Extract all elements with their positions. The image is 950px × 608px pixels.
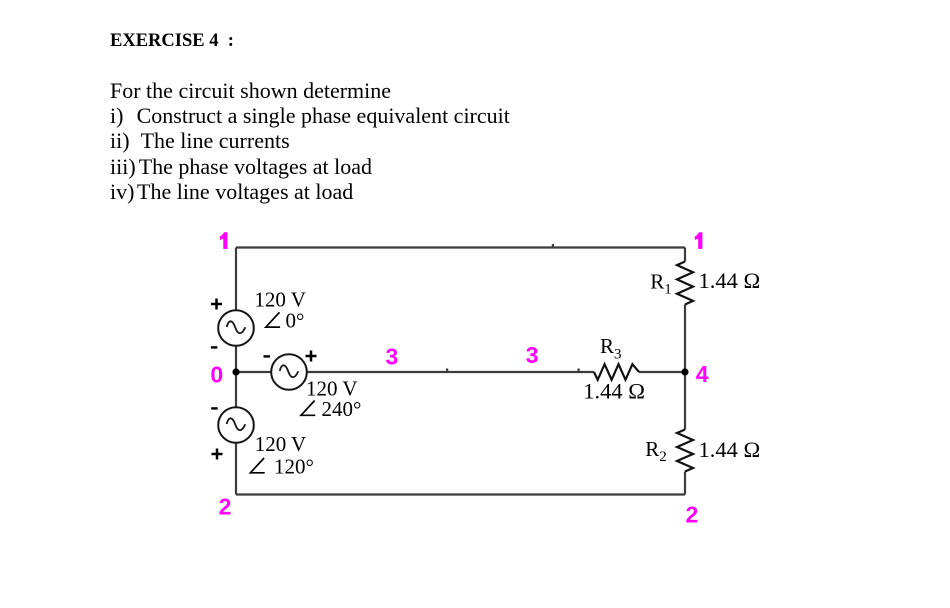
angle symbol V3	[250, 458, 264, 473]
source V1 circle (top)	[218, 310, 254, 346]
svg-text:1.44 Ω: 1.44 Ω	[699, 268, 761, 293]
svg-text:1.44 Ω: 1.44 Ω	[583, 379, 645, 404]
svg-text:R1: R1	[650, 270, 672, 298]
paragraph: problem statement	[110, 78, 510, 205]
minus sign V1	[211, 346, 218, 348]
node label 1 top-left	[220, 232, 228, 249]
svg-text:R3: R3	[600, 334, 622, 362]
wire: right vertical segments	[684, 248, 686, 495]
svg-text:3: 3	[526, 342, 539, 368]
junction tick middle wire b	[578, 369, 580, 372]
svg-text:120°: 120°	[274, 454, 314, 478]
svg-text:2: 2	[219, 494, 232, 520]
source V1 sine	[227, 321, 246, 333]
source V3 sine	[227, 418, 246, 430]
source V2 sine	[280, 365, 299, 377]
title	[110, 32, 234, 51]
resistor R1 zigzag	[677, 262, 693, 305]
plus sign V2	[306, 351, 317, 362]
svg-text:3: 3	[386, 343, 399, 369]
svg-text:2: 2	[686, 502, 699, 528]
wire: bottom rail from node2 left to node2 right	[236, 493, 685, 495]
svg-text:0: 0	[210, 361, 223, 387]
junction tick middle wire a	[446, 369, 448, 372]
minus sign V2	[264, 355, 271, 357]
node label 1 top-right	[695, 232, 703, 249]
minus sign V3	[211, 407, 218, 409]
source V3 circle (bottom)	[218, 407, 254, 443]
plus sign V3	[212, 449, 223, 460]
wire: middle rail node0 to node4	[236, 371, 685, 373]
svg-text:120 V: 120 V	[255, 432, 307, 456]
wire: left vertical branch through sources	[235, 248, 237, 495]
angle symbol V1	[266, 312, 280, 327]
angle symbol V2	[301, 401, 315, 416]
source V2 circle (middle)	[271, 354, 307, 390]
resistor R3 zigzag	[594, 364, 639, 380]
svg-text:1.44 Ω: 1.44 Ω	[699, 437, 761, 462]
resistor R2 zigzag	[677, 430, 693, 472]
node 4 junction dot	[681, 368, 688, 375]
svg-text:4: 4	[696, 361, 709, 387]
svg-text:R2: R2	[645, 437, 667, 465]
wire: top rail from node1 left to node1 right	[236, 246, 685, 248]
node 0 junction dot	[232, 368, 239, 375]
svg-text:240°: 240°	[322, 397, 362, 421]
plus sign V1	[211, 299, 222, 310]
svg-text:0°: 0°	[286, 309, 305, 333]
junction tick top wire	[552, 244, 554, 247]
